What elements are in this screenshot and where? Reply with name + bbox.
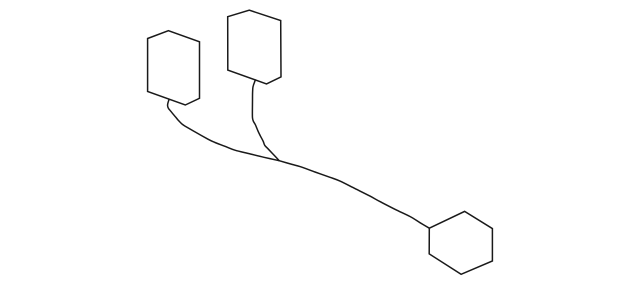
- wire from connector C2 to junction: [252, 80, 279, 161]
- wire from connector C1 to junction: [168, 100, 280, 161]
- merged wire from junction to connector C3: [279, 161, 429, 229]
- connector C3 (lower right hexagonal plug): [429, 211, 492, 274]
- connector C2 (upper middle hexagonal plug): [228, 10, 281, 84]
- connector C1 (left hexagonal plug): [148, 31, 200, 105]
